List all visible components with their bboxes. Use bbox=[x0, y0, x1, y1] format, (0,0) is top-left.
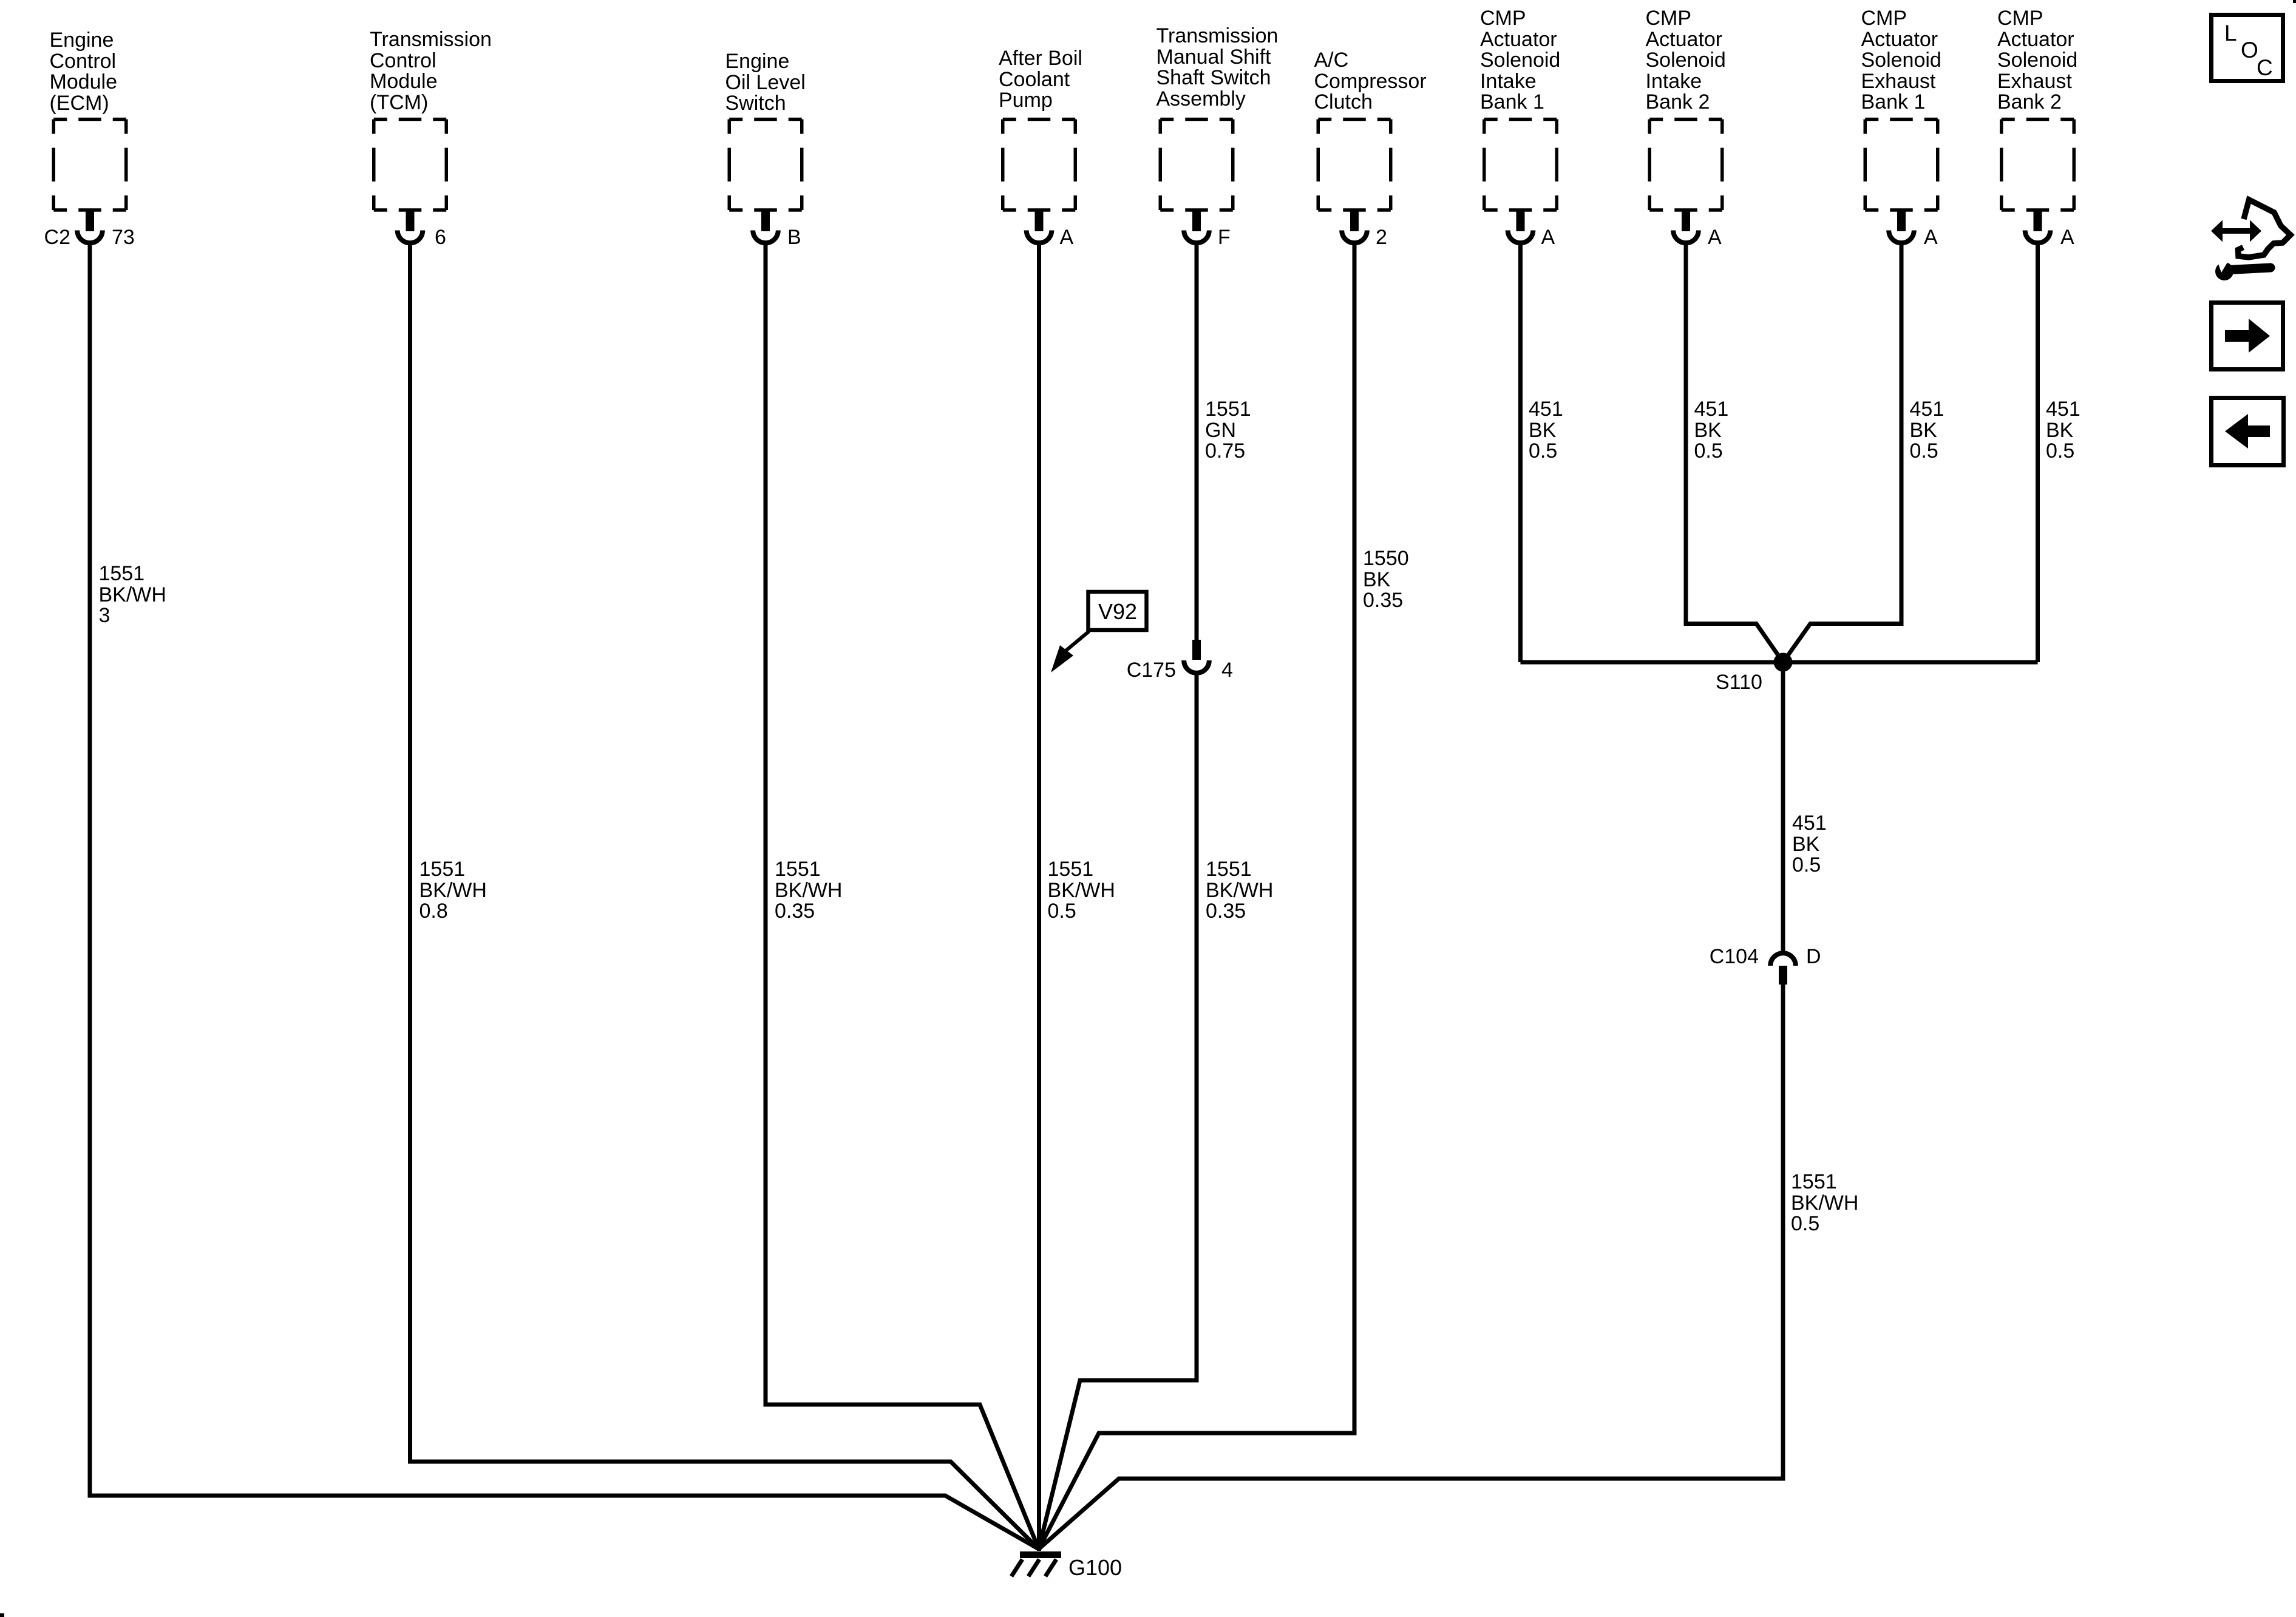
component box CMP Actuator Solenoid Exhaust Bank 2 (dashed) bbox=[2002, 120, 2074, 211]
label for Engine Oil Level Switch bbox=[725, 51, 806, 114]
wire label 451 BK 0.5 (exhaust bank 1) bbox=[1910, 399, 1944, 462]
wire 1551 BK/WH 0.5 from After Boil Coolant Pump pin A to G100 bbox=[1037, 244, 1041, 1551]
pin A at CMP Actuator Solenoid Intake Bank 2 bbox=[1708, 227, 1722, 248]
component box After Boil Coolant Pump (dashed) bbox=[1003, 120, 1076, 211]
label for CMP Actuator Solenoid Exhaust Bank 1 bbox=[1861, 8, 1941, 113]
icon box arrow left (previous) bbox=[2212, 398, 2284, 466]
icon box arrow right (next) bbox=[2212, 303, 2283, 370]
label for CMP Actuator Solenoid Exhaust Bank 2 bbox=[1997, 8, 2077, 113]
wire label 1551 BK/WH 0.35 (oil level) bbox=[775, 859, 842, 922]
label for Engine Control Module (ECM) bbox=[50, 30, 118, 114]
wire 1551 BK/WH 0.8 from TCM pin 6 to G100 bbox=[410, 244, 1039, 1549]
connector pin symbol at CMP Actuator Solenoid Exhaust Bank 1 bbox=[1889, 211, 1914, 243]
wire label 1551 BK/WH 0.5 (pump) bbox=[1048, 859, 1115, 922]
wire label 451 BK 0.5 (exhaust bank 2) bbox=[2046, 399, 2080, 462]
connector pin symbol at A/C Compressor Clutch bbox=[1342, 211, 1367, 243]
wire 1551 BK/WH 0.35 from C175 to G100 bbox=[1039, 674, 1197, 1549]
connector pin symbol at Transmission Control Module (TCM) bbox=[398, 211, 423, 243]
connector label C175 bbox=[1127, 660, 1176, 681]
component box Engine Control Module (ECM) (dashed) bbox=[53, 120, 126, 211]
pin D at C104 bbox=[1806, 946, 1821, 968]
pin 2 at A/C Compressor Clutch bbox=[1376, 227, 1387, 248]
wire label 451 BK 0.5 (below S110) bbox=[1792, 813, 1827, 876]
wire label 1551 BK/WH 0.35 (C175) bbox=[1206, 859, 1273, 922]
wire label 1550 BK 0.35 bbox=[1363, 548, 1409, 611]
component box Engine Oil Level Switch (dashed) bbox=[729, 120, 802, 211]
wire 1551 GN 0.75 from Transmission Manual Shift Shaft Switch pin F to C175 bbox=[1195, 244, 1199, 641]
page corner speck top-right bbox=[2293, 0, 2296, 3]
wire label 1551 BK/WH 0.8 bbox=[419, 859, 487, 922]
wire 1551 BK/WH 0.5 from C104 to G100 bbox=[1039, 983, 1783, 1549]
pin A at CMP Actuator Solenoid Exhaust Bank 2 bbox=[2060, 227, 2074, 248]
connector pin symbol at Engine Oil Level Switch bbox=[753, 211, 778, 243]
pin A at CMP Actuator Solenoid Intake Bank 1 bbox=[1541, 227, 1555, 248]
pin 6 at TCM bbox=[435, 227, 446, 248]
connector pin symbol at Transmission Manual Shift Shaft Switch Assembly bbox=[1184, 211, 1209, 243]
wire label 451 BK 0.5 (intake bank 1) bbox=[1529, 399, 1563, 462]
connector pin symbol at CMP Actuator Solenoid Intake Bank 2 bbox=[1673, 211, 1699, 243]
ground label G100 bbox=[1068, 1558, 1122, 1579]
component box CMP Actuator Solenoid Intake Bank 2 (dashed) bbox=[1649, 120, 1722, 211]
connector pin symbol at Engine Control Module (ECM) bbox=[77, 211, 103, 243]
label for Transmission Manual Shift Shaft Switch Assembly bbox=[1156, 25, 1279, 109]
wire label 1551 GN 0.75 bbox=[1205, 399, 1251, 462]
wire 1550 BK 0.35 from A/C Compressor Clutch pin 2 to G100 bbox=[1039, 244, 1354, 1549]
connector pin symbol at CMP Actuator Solenoid Intake Bank 1 bbox=[1508, 211, 1533, 243]
label for After Boil Coolant Pump bbox=[999, 48, 1082, 111]
component box CMP Actuator Solenoid Intake Bank 1 (dashed) bbox=[1484, 120, 1557, 211]
label for CMP Actuator Solenoid Intake Bank 1 bbox=[1480, 8, 1560, 113]
legend letter C bbox=[2257, 58, 2273, 79]
component box A/C Compressor Clutch (dashed) bbox=[1318, 120, 1391, 211]
label for CMP Actuator Solenoid Intake Bank 2 bbox=[1646, 8, 1726, 113]
splice S110 junction dot bbox=[1774, 653, 1793, 672]
pin 73 at ECM bbox=[112, 227, 135, 248]
wire 1551 BK/WH 3 from ECM pin 73 to G100 bbox=[90, 244, 1039, 1549]
legend box LOC bbox=[2212, 15, 2283, 81]
wire label 451 BK 0.5 (intake bank 2) bbox=[1694, 399, 1729, 462]
wire 451 BK 0.5 from CMP Actuator Solenoid Intake Bank 2 pin A to splice S110 bbox=[1686, 244, 1783, 662]
ground G100 symbol bbox=[1011, 1555, 1061, 1577]
node label S110 bbox=[1716, 672, 1762, 693]
component box Transmission Control Module (TCM) (dashed) bbox=[374, 120, 447, 211]
pin F at Transmission Manual Shift Shaft Switch bbox=[1218, 227, 1231, 248]
label for A/C Compressor Clutch bbox=[1314, 50, 1427, 113]
wire label 1551 BK/WH 0.5 (below C104) bbox=[1791, 1171, 1858, 1235]
connector label C104 bbox=[1710, 946, 1759, 968]
wire 451 BK 0.5 from CMP Actuator Solenoid Exhaust Bank 2 pin A to splice S110 bbox=[2036, 244, 2040, 662]
callout text V92 bbox=[1098, 602, 1137, 623]
label for Transmission Control Module (TCM) bbox=[370, 29, 492, 113]
page corner speck bottom-left bbox=[0, 1613, 4, 1617]
wire 451 BK 0.5 from CMP Actuator Solenoid Exhaust Bank 1 pin A to splice S110 bbox=[1783, 244, 1901, 662]
legend letter L bbox=[2224, 23, 2237, 44]
pin B at Engine Oil Level Switch bbox=[787, 227, 801, 248]
legend letter O bbox=[2241, 40, 2258, 61]
wire splice bus at S110 bbox=[1521, 660, 2038, 665]
callout box V92 with leader arrow bbox=[1051, 592, 1147, 673]
pin A at CMP Actuator Solenoid Exhaust Bank 1 bbox=[1924, 227, 1938, 248]
pin 4 at C175 bbox=[1221, 660, 1233, 681]
wire 1551 BK/WH 0.35 from Engine Oil Level Switch pin B to G100 bbox=[766, 244, 1039, 1549]
wire 451 BK 0.5 from CMP Actuator Solenoid Intake Bank 1 pin A to splice S110 bbox=[1518, 244, 1523, 662]
pin label C2 at ECM bbox=[44, 227, 70, 248]
connector pin symbol at CMP Actuator Solenoid Exhaust Bank 2 bbox=[2025, 211, 2051, 243]
component box CMP Actuator Solenoid Exhaust Bank 1 (dashed) bbox=[1865, 120, 1938, 211]
icon double-headed arrow with wrench (diagnostic) bbox=[2211, 200, 2291, 280]
wire label 1551 BK/WH 3 bbox=[99, 563, 166, 626]
component box Transmission Manual Shift Shaft Switch Assembly (dashed) bbox=[1160, 120, 1233, 211]
connector C104 pin D symbol bbox=[1770, 953, 1796, 985]
connector pin symbol at After Boil Coolant Pump bbox=[1027, 211, 1052, 243]
connector C175 pin 4 symbol bbox=[1184, 640, 1209, 673]
wire 451 BK 0.5 from splice S110 to C104 bbox=[1781, 662, 1785, 951]
pin A at After Boil Coolant Pump bbox=[1060, 227, 1074, 248]
